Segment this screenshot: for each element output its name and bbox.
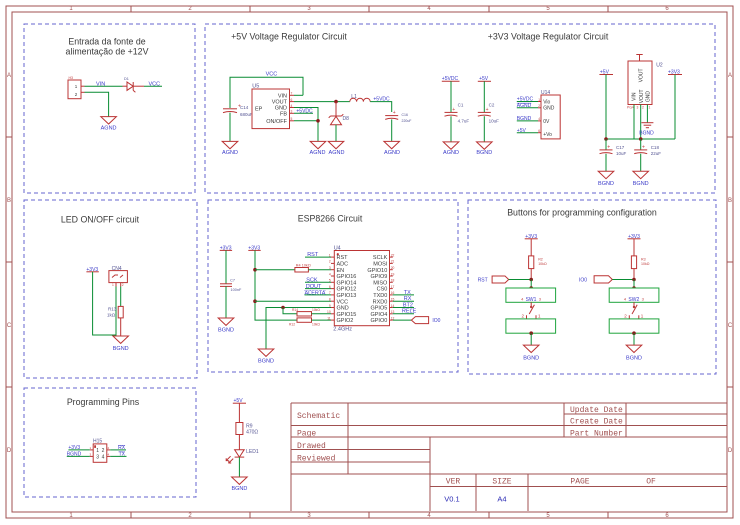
wire +3V3 to CN4 pin1 [93,272,116,335]
svg-text:GPIO12: GPIO12 [337,287,357,293]
svg-text:6: 6 [291,98,293,102]
svg-text:GPIO16: GPIO16 [337,274,357,280]
svg-text:VOUT: VOUT [638,68,644,82]
svg-text:GPIO9: GPIO9 [370,274,387,280]
frame column numbers bottom [69,513,669,519]
ground AGND (input) [101,117,117,132]
power flag +3V3 (button 1) [525,234,538,240]
svg-text:VCC: VCC [337,299,349,305]
svg-text:SW2: SW2 [628,297,639,303]
ground AGND (U5) [310,141,326,155]
power flag +3V3 (LED circuit) [86,267,98,273]
diode D8 (zener) [329,114,349,125]
ground BGND (SW1) [523,345,539,362]
wire TXD0 [393,294,414,296]
ground BGND (LED1) [231,477,247,492]
connector H3 (power input) [68,76,85,99]
svg-text:BGND: BGND [639,131,654,137]
svg-text:2: 2 [122,283,124,287]
junction (SW1 bottom) [529,331,533,335]
svg-text:GPIO13: GPIO13 [337,293,357,299]
ground BGND (C2) [476,142,492,156]
svg-text:GND: GND [543,106,555,112]
junction (+5V / C17) [604,137,608,141]
svg-text:AGND: AGND [443,150,459,156]
junction (VOUT / C18) [639,137,643,141]
switch SW2 label [624,296,645,303]
svg-text:GPIO2: GPIO2 [337,318,354,324]
svg-text:D: D [728,448,733,454]
ground AGND (C16) [384,141,400,155]
wire U2 VOUT down [640,105,642,140]
svg-text:Reviewed: Reviewed [297,455,336,464]
wire C1 to AGND [450,116,452,142]
switch SW1 lever [527,302,537,319]
svg-text:C2: C2 [489,103,495,108]
ground AGND (C1) [443,142,459,156]
svg-text:R13: R13 [108,307,117,312]
svg-text:C17: C17 [616,145,625,150]
svg-text:VOUT: VOUT [639,89,645,103]
wire C2 to BGND [483,116,485,142]
wire RXD0 [393,300,414,302]
wire C14 to AGND [229,113,231,142]
svg-text:+5VDC: +5VDC [296,109,313,115]
svg-text:1: 1 [112,283,114,287]
svg-text:CN4: CN4 [112,266,122,272]
junction (SW2 top) [632,286,636,290]
svg-text:RXD0: RXD0 [373,299,388,305]
wire D8 branch [335,102,337,116]
wire U5 GND to AGND [294,108,318,142]
netflag IO0 [411,317,440,324]
svg-text:1: 1 [329,253,331,257]
wire +5VDC to U14 Vio [517,101,538,103]
ground AGND (D8) [328,141,344,155]
dashed section box: LED ON/OFF [24,200,197,378]
wire C7 to BGND [225,286,227,318]
IC U4 ESP8266 [327,245,395,332]
svg-text:680uF: 680uF [240,112,253,117]
svg-text:R4 10kΩ: R4 10kΩ [296,263,311,267]
svg-text:C16: C16 [402,113,408,117]
dashed section box: ESP8266 [208,200,458,372]
svg-text:22: 22 [391,253,395,257]
wire bottom rail [606,138,675,140]
wire +5V to R9 [238,403,240,422]
capacitor C17 10uF [600,145,627,156]
svg-text:22uF: 22uF [651,151,662,156]
svg-text:U2: U2 [656,63,663,69]
svg-text:GPIO5: GPIO5 [370,306,387,312]
svg-text:SW1: SW1 [526,297,537,303]
svg-text:B: B [7,198,11,204]
svg-text:IO0: IO0 [432,318,440,324]
svg-text:6: 6 [329,285,331,289]
op-amp U14 (isolated converter) [538,90,560,139]
wire U2 GND down [646,105,648,123]
svg-text:IO0: IO0 [579,278,587,284]
svg-text:18: 18 [391,279,395,283]
wire U5 VOUT to L1 [294,101,350,103]
junction (EN pullup) [253,268,257,272]
svg-text:B: B [728,198,732,204]
svg-text:2.4GHz: 2.4GHz [333,327,352,333]
svg-text:AGND: AGND [310,150,326,156]
wire H15 pin4 to TX [110,455,126,457]
svg-text:R14: R14 [292,308,298,312]
wire U5 VIN [294,94,303,96]
svg-text:AGND: AGND [329,150,345,156]
wire +3V3 to R2 [530,239,532,256]
wire L1 to C16 [370,102,392,112]
wire R14 to GPIO15 [312,313,332,315]
wire pulldown to R14 [283,308,297,314]
svg-text:C14: C14 [240,105,249,110]
svg-text:1: 1 [96,448,99,454]
svg-text:Part Number: Part Number [570,430,623,439]
svg-text:RX: RX [404,296,412,302]
svg-text:4.7uF: 4.7uF [458,119,470,124]
svg-text:C: C [728,323,733,329]
wire BGND to U14 0V [517,120,538,122]
svg-text:VIN: VIN [278,93,287,99]
svg-text:RELE: RELE [402,309,417,315]
svg-text:EP: EP [255,107,263,113]
svg-text:2: 2 [642,106,644,110]
svg-text:C: C [7,323,12,329]
junction (SW1 top) [529,286,533,290]
wire H15 pin2 to RX [110,449,126,451]
wire C16 to AGND [391,119,393,141]
wire C18 to BGND [640,154,642,172]
wire U2 VIN down [633,105,635,140]
wire loop SW2 pins 4-3 [609,288,659,302]
wire LED1 to BGND [238,457,240,477]
svg-text:BGND: BGND [626,356,642,362]
svg-text:CS0: CS0 [377,287,388,293]
svg-text:MISO: MISO [373,280,388,286]
wire +3V3 rail down [674,75,676,140]
section title: Entrada [66,37,149,57]
wire GPIO4 [393,313,414,315]
svg-text:A4: A4 [497,495,506,504]
svg-text:ON/OFF: ON/OFF [266,119,287,125]
svg-text:D8: D8 [343,116,350,122]
capacitor C1 4.7uF [445,103,470,124]
wire D8 to AGND [335,125,337,142]
svg-text:10kΩ: 10kΩ [538,262,547,266]
svg-text:20: 20 [391,266,395,270]
svg-text:3: 3 [291,110,293,114]
junction (ON/OFF to GND rail) [316,119,320,123]
svg-text:2: 2 [329,260,331,264]
wire VCC to U5 VIN [230,77,303,108]
capacitor C7 100nF [220,279,242,292]
svg-text:BGND: BGND [113,346,129,352]
svg-text:17: 17 [391,285,395,289]
wire SW2 to BGND [633,333,635,345]
power flag +3V3 (button 2) [628,234,641,240]
svg-text:+3V3 Voltage Regulator Circuit: +3V3 Voltage Regulator Circuit [488,32,609,42]
switch SW1 label [521,296,542,303]
wire +3V3 to H15 pin1 [68,449,89,451]
wire +5V rail down [605,75,607,140]
svg-text:Update Date: Update Date [570,406,623,415]
svg-text:BGND: BGND [258,358,274,364]
svg-text:Entrada da fonte de: Entrada da fonte de [68,37,145,47]
svg-text:5: 5 [329,279,331,283]
ground BGND (U4) [258,349,274,364]
LED LED1 [226,449,259,463]
wire DOUT to GPIO12 [305,288,331,290]
power flag +3V3 (ESP rail) [248,246,260,252]
frame bottom ticks [131,512,608,518]
svg-text:VER: VER [446,478,461,487]
power flag +5V (C2) [478,76,491,82]
wire R9 to LED1 [238,435,240,450]
svg-text:BGND: BGND [218,327,234,333]
ground BGND (C7) [218,318,234,333]
wire U5 FB [294,112,313,114]
switch SW1 pin numbers 2 1 [522,314,542,319]
svg-text:BGND: BGND [523,356,539,362]
capacitor C14 680uF [223,104,253,118]
frame top ticks [131,6,608,12]
wire +5VDC to C1 [450,81,452,112]
wire R2 to junction [530,269,532,280]
power flag +5V (LED1) [233,398,246,404]
wire BGND to H15 pin3 [67,455,90,457]
svg-text:BGND: BGND [476,150,492,156]
junction (VCC) [253,299,257,303]
wire loop SW1 pins 2-1 [506,319,556,333]
svg-text:VCC: VCC [266,72,278,78]
svg-text:6: 6 [538,129,540,133]
svg-text:8: 8 [329,298,331,302]
wire EN pullup [255,269,295,271]
wire VCC [255,300,331,302]
wire +5V to C2 [483,81,485,112]
svg-text:V0.1: V0.1 [444,495,459,504]
resistor R4 10k [295,263,311,272]
frame row letters right [728,73,733,454]
wire CN4 pin2 to R13 [120,287,122,307]
wire GPIO5 [393,307,414,309]
wire GPIO0 [393,319,412,321]
svg-text:RST: RST [478,278,488,284]
svg-text:RST: RST [337,255,349,261]
svg-text:SCK: SCK [306,278,318,284]
svg-text:LED1: LED1 [246,449,259,455]
svg-text:U14: U14 [541,90,550,96]
svg-text:H3: H3 [69,76,74,80]
svg-text:220uF: 220uF [402,119,412,123]
svg-text:0V: 0V [543,119,550,125]
svg-text:4: 4 [291,104,293,108]
svg-text:Programming Pins: Programming Pins [67,397,140,407]
dashed section box: programming pins [24,388,196,497]
earth ground (U2 GND) [641,123,653,128]
wire R13 to BGND [120,318,122,336]
svg-text:D: D [7,448,12,454]
svg-text:GND: GND [337,306,349,312]
svg-text:PAGE: PAGE [570,478,589,487]
wire +5V to U14 +Vo [517,132,538,134]
svg-text:5: 5 [291,117,293,121]
svg-text:FB: FB [280,111,287,117]
wire junction to SW1 [530,280,532,289]
wire ALERTA to GPIO13 [305,294,332,296]
svg-text:D1: D1 [124,77,129,81]
svg-text:MOSI: MOSI [373,262,388,268]
wire +3V3 to R3 [633,239,635,256]
svg-text:TX: TX [404,290,411,296]
wire VCC net [144,85,162,87]
capacitor C16 220uF [385,110,411,123]
frame side ticks [6,137,733,387]
wire junction to SW2 [633,280,635,289]
svg-text:Buttons for programming config: Buttons for programming configuration [507,208,657,218]
connector H15 [90,439,111,463]
power flag +5V (U2 input) [599,69,613,75]
svg-text:21: 21 [391,260,395,264]
svg-text:1kΩ: 1kΩ [107,312,116,317]
resistor R12 10k [289,318,320,327]
svg-text:10uF: 10uF [616,151,627,156]
junction (RST node) [529,278,533,282]
svg-text:C18: C18 [651,145,660,150]
switch SW2 lever [629,302,639,319]
svg-text:4: 4 [538,117,540,121]
svg-text:GPIO10: GPIO10 [367,268,387,274]
wire +3V3 rail down to GPIO2 pullup [255,250,297,320]
dashed section box: buttons [468,200,716,374]
junction (SW2 bottom) [632,331,636,335]
wire pin2 to ground [85,92,109,116]
svg-text:10kΩ: 10kΩ [312,322,320,326]
svg-text:BGND: BGND [598,181,614,187]
svg-text:GPIO15: GPIO15 [337,312,357,318]
svg-text:ADC: ADC [337,262,349,268]
switch SW2 pin numbers 2 1 [624,314,644,319]
wire VIN net [85,85,123,87]
svg-text:Page: Page [297,430,316,439]
wire SCK to GPIO14 [305,281,331,283]
wire +3V3 to C7 [225,250,227,283]
wire C17 to BGND [605,154,607,172]
junction (GPIO15 pulldown) [281,306,285,310]
svg-text:4: 4 [329,272,331,276]
svg-text:+5VDC: +5VDC [373,96,390,102]
svg-text:100nF: 100nF [231,288,242,292]
dashed section box: power input [24,24,195,193]
power flag +3V3 (U2 output) [668,69,682,75]
wire SW1 to BGND [530,333,532,345]
wire IO0 flag to junction [612,279,634,281]
op-amp U2 (3V3 LDO) [627,55,663,110]
svg-text:7: 7 [291,92,293,96]
svg-text:A: A [7,73,11,79]
inductor L1 [350,94,370,102]
svg-text:GPIO0: GPIO0 [370,318,387,324]
svg-text:19: 19 [391,272,395,276]
wire RST to U4 [305,256,331,258]
svg-text:10kΩ: 10kΩ [312,308,320,312]
svg-text:+Vo: +Vo [543,132,552,138]
capacitor C18 22uF [634,145,661,156]
svg-text:3: 3 [96,455,99,461]
svg-text:BT2: BT2 [403,302,413,308]
svg-text:Schematic: Schematic [297,412,340,421]
frame row letters left [7,73,12,454]
svg-text:OF: OF [646,478,656,487]
wire U5 ON/OFF [294,120,318,122]
svg-text:VCC: VCC [149,81,161,87]
svg-text:10kΩ: 10kΩ [641,262,650,266]
svg-text:1: 1 [538,98,540,102]
resistor R9 470 [236,423,259,436]
ground AGND (C14) [222,141,238,155]
wire loop SW2 pins 2-1 [609,319,659,333]
svg-text:R12: R12 [289,322,295,326]
svg-text:VIN: VIN [96,81,105,87]
svg-text:ESP8266 Circuit: ESP8266 Circuit [298,214,363,224]
svg-text:C1: C1 [458,103,464,108]
svg-text:7: 7 [329,291,331,295]
svg-text:Vio: Vio [543,99,550,105]
ground BGND (C18) [633,171,649,187]
wire RST flag to junction [509,279,532,281]
frame column numbers top [69,6,669,12]
svg-text:SCLK: SCLK [373,255,388,261]
svg-text:AGND: AGND [222,150,238,156]
svg-text:H15: H15 [93,439,102,445]
svg-text:GND: GND [646,91,652,103]
wire AGND to U14 GND [517,107,538,109]
junction (IO0 node) [632,278,636,282]
junction (VOUT / D8) [334,100,338,104]
svg-text:alimentação de +12V: alimentação de +12V [66,47,149,57]
svg-text:U4: U4 [334,245,341,251]
power flag +5VDC (C1) [442,76,460,82]
wire R12 to GPIO2 [312,319,332,321]
svg-text:AGND: AGND [384,150,400,156]
svg-text:TXD0: TXD0 [373,293,387,299]
svg-text:GPIO14: GPIO14 [337,280,357,286]
svg-text:EN: EN [337,268,345,274]
resistor R14 10k [292,308,320,316]
ground BGND (SW2) [626,345,642,362]
svg-text:BGND: BGND [231,486,247,492]
ground BGND (LED circuit) [113,336,129,352]
svg-text:+5V Voltage Regulator Circuit: +5V Voltage Regulator Circuit [231,32,347,42]
wire loop SW1 pins 4-3 [506,288,556,302]
svg-text:AGND: AGND [101,126,117,132]
svg-text:2: 2 [102,448,105,454]
connector CN4 [109,266,128,287]
svg-text:1: 1 [649,106,651,110]
wire R3 to junction [633,269,635,280]
svg-text:2: 2 [538,104,540,108]
svg-text:BGND: BGND [633,181,649,187]
svg-text:VIN: VIN [632,92,638,101]
resistor R3 10k [631,256,649,269]
svg-text:470Ω: 470Ω [246,430,258,436]
netflag RST [492,276,509,283]
svg-text:C7: C7 [230,279,235,283]
svg-text:Create Date: Create Date [570,418,623,427]
